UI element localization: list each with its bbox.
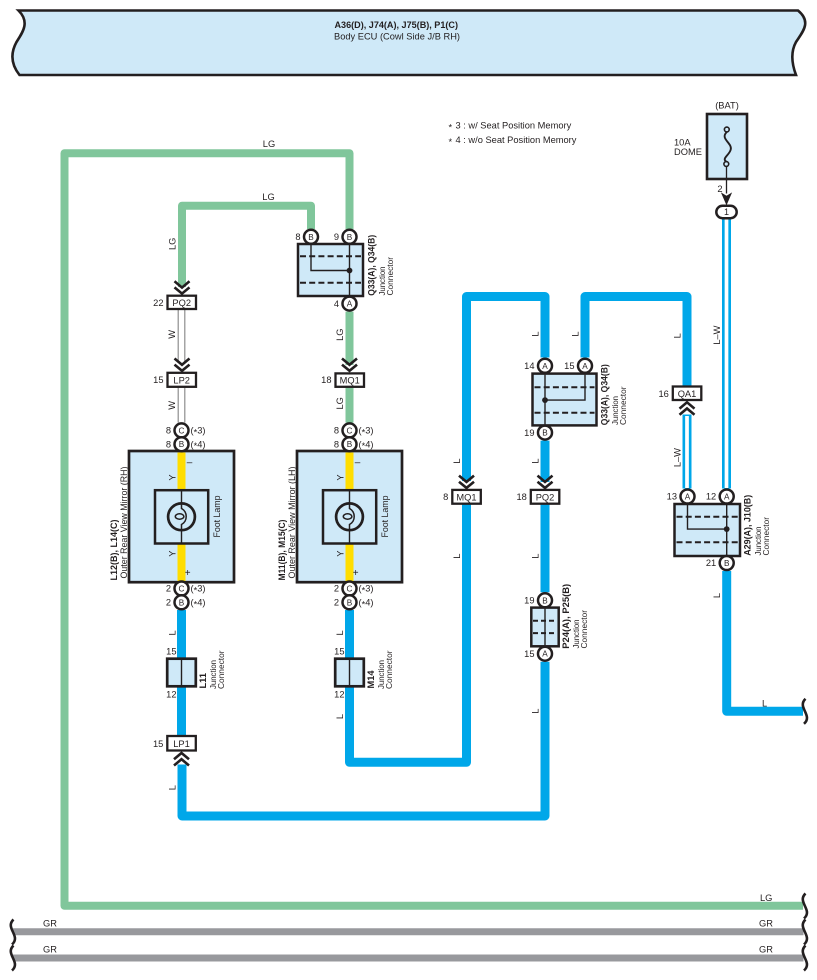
svg-text:GR: GR bbox=[759, 945, 773, 955]
chevron into PQ2 bbox=[175, 281, 190, 293]
svg-text:13: 13 bbox=[667, 492, 677, 502]
svg-text:C: C bbox=[347, 426, 353, 435]
svg-text:Foot Lamp: Foot Lamp bbox=[380, 496, 390, 538]
wire L (below MQ1 down, across, up to M14) bbox=[335, 503, 467, 762]
svg-text:PQ2: PQ2 bbox=[536, 492, 555, 502]
svg-text:L: L bbox=[531, 554, 541, 559]
wire GR bus 1 bbox=[13, 919, 804, 932]
svg-text:12: 12 bbox=[706, 492, 716, 502]
pin 15 A of Q33 lower bbox=[564, 359, 592, 373]
svg-text:B: B bbox=[347, 233, 353, 242]
svg-text:W: W bbox=[167, 401, 177, 410]
svg-text:L: L bbox=[571, 331, 581, 336]
svg-text:+: + bbox=[185, 568, 191, 579]
wire W (LP2 to RH mirror pin 8) bbox=[167, 387, 185, 422]
connector tag 18 PQ2 bbox=[516, 490, 559, 504]
svg-text:B: B bbox=[308, 233, 314, 242]
svg-text:L: L bbox=[452, 554, 462, 559]
pin 8 C of LH mirror bbox=[334, 423, 374, 437]
svg-text:Q33(A), Q34(B): Q33(A), Q34(B) bbox=[367, 235, 377, 296]
svg-text:B: B bbox=[347, 598, 353, 607]
svg-text:–: – bbox=[187, 458, 193, 469]
svg-text:12: 12 bbox=[166, 690, 176, 700]
wire L (pin 21B A29 down and right to break) bbox=[712, 571, 803, 711]
svg-text:LG: LG bbox=[263, 139, 275, 149]
break squiggle GR1 right bbox=[803, 920, 807, 945]
connector tag 18 MQ1 bbox=[321, 373, 364, 386]
pin 19 B of Q33 lower bbox=[524, 426, 552, 440]
pin 8 B of RH mirror bbox=[166, 437, 206, 451]
pin 4 A of Q33 upper bbox=[334, 297, 357, 311]
svg-text:Y: Y bbox=[168, 551, 178, 557]
fuse 10A DOME bbox=[674, 101, 747, 180]
svg-text:2: 2 bbox=[166, 584, 171, 594]
wire L-W (QA1 to pin 13A A29) bbox=[673, 415, 688, 489]
svg-text:Y: Y bbox=[336, 551, 346, 557]
outer rear view mirror RH L12(B), L14(C) bbox=[109, 451, 234, 582]
svg-text:19: 19 bbox=[524, 596, 534, 606]
svg-text:L: L bbox=[531, 709, 541, 714]
svg-text:L: L bbox=[762, 699, 767, 709]
svg-text:Connector: Connector bbox=[216, 650, 226, 689]
svg-text:L: L bbox=[168, 785, 178, 790]
svg-text:A: A bbox=[542, 362, 548, 371]
svg-text:B: B bbox=[542, 429, 548, 438]
junction connector L11 bbox=[166, 647, 226, 700]
wire L (PQ2-2 to pin 19B P24) bbox=[531, 503, 546, 592]
svg-text:MQ1: MQ1 bbox=[456, 492, 476, 502]
svg-text:Outer Rear View Mirror (LH): Outer Rear View Mirror (LH) bbox=[287, 467, 297, 579]
break squiggle blue L right bbox=[803, 699, 807, 724]
svg-text:(*3): (*3) bbox=[359, 584, 374, 596]
svg-text:2: 2 bbox=[717, 184, 722, 194]
pin 2 C of RH mirror bbox=[166, 582, 206, 596]
svg-text:DOME: DOME bbox=[674, 147, 702, 157]
pin 2 B of RH mirror bbox=[166, 595, 206, 609]
svg-text:M14: M14 bbox=[366, 670, 376, 689]
svg-text:21: 21 bbox=[706, 558, 716, 568]
pin 12 A of A29 bbox=[706, 490, 734, 504]
svg-text:12: 12 bbox=[334, 690, 344, 700]
svg-text:(*4): (*4) bbox=[191, 439, 206, 451]
wire LG branch (PQ2 to pin 8B Q33) bbox=[168, 192, 312, 287]
pin 13 A of A29 bbox=[667, 490, 695, 504]
svg-text:15: 15 bbox=[564, 361, 574, 371]
svg-text:15: 15 bbox=[524, 649, 534, 659]
wire LG main (pin 9B Q33 to left edge, down and across bottom) bbox=[65, 139, 804, 906]
wire LG (pin 4A Q33 to MQ1) bbox=[335, 312, 350, 365]
wire L-W (fuse tag 1 to pin 12A A29) bbox=[712, 217, 727, 489]
svg-text:GR: GR bbox=[43, 919, 57, 929]
svg-text:Connector: Connector bbox=[761, 517, 771, 556]
svg-text:QA1: QA1 bbox=[678, 389, 697, 399]
svg-text:LP2: LP2 bbox=[173, 375, 190, 385]
svg-text:18: 18 bbox=[516, 492, 526, 502]
break squiggle GR1 left bbox=[11, 920, 15, 945]
svg-text:(BAT): (BAT) bbox=[715, 101, 739, 111]
svg-text:8: 8 bbox=[443, 492, 448, 502]
svg-text:8: 8 bbox=[334, 439, 339, 449]
wire L (pin 19B Q33B to PQ2-2) bbox=[531, 441, 546, 482]
svg-text:Outer Rear View Mirror (RH): Outer Rear View Mirror (RH) bbox=[119, 467, 129, 579]
wire fuse pin 2 lead bbox=[717, 167, 726, 195]
junction connector A29(A), J10(B) bbox=[675, 495, 771, 556]
svg-text:16: 16 bbox=[658, 389, 668, 399]
svg-text:LG: LG bbox=[335, 397, 345, 409]
foot lamp LH bbox=[323, 490, 390, 543]
svg-text:3 : w/ Seat Position Memory: 3 : w/ Seat Position Memory bbox=[456, 121, 572, 131]
svg-text:L11: L11 bbox=[198, 673, 208, 689]
svg-text:A: A bbox=[724, 493, 730, 502]
svg-text:4: 4 bbox=[334, 299, 339, 309]
pin 9 B of Q33 upper bbox=[334, 230, 357, 244]
svg-text:4 : w/o Seat Position Memory: 4 : w/o Seat Position Memory bbox=[456, 135, 577, 145]
svg-text:22: 22 bbox=[153, 298, 163, 308]
svg-text:LG: LG bbox=[760, 893, 772, 903]
connector tag 22 PQ2 bbox=[153, 296, 196, 309]
svg-text:L: L bbox=[335, 630, 345, 635]
svg-text:A: A bbox=[347, 300, 353, 309]
wire L (LH mirror pin 2 to M14) bbox=[335, 610, 350, 660]
junction connector Q33(A), Q34(B) upper bbox=[298, 235, 395, 296]
chevron into PQ2 lower bbox=[538, 476, 553, 488]
svg-text:LG: LG bbox=[262, 192, 274, 202]
svg-text:2: 2 bbox=[334, 584, 339, 594]
svg-text:(*4): (*4) bbox=[359, 439, 374, 451]
svg-text:GR: GR bbox=[759, 919, 773, 929]
svg-text:B: B bbox=[542, 596, 548, 605]
pin 15 A of P24 bbox=[524, 647, 552, 661]
svg-text:14: 14 bbox=[524, 361, 534, 371]
wire GR bus 2 bbox=[13, 945, 804, 959]
svg-text:Y: Y bbox=[336, 474, 346, 480]
svg-text:15: 15 bbox=[153, 375, 163, 385]
pin 8 B of LH mirror bbox=[334, 437, 374, 451]
wire L (pin 15A P24 down, across, up to LP1) bbox=[168, 662, 546, 816]
pin 21 B of A29 bbox=[706, 556, 734, 570]
pin 14 A of Q33 lower bbox=[524, 359, 552, 373]
svg-text:C: C bbox=[179, 585, 185, 594]
banner Body ECU (Cowl Side J/B RH) bbox=[12, 11, 805, 76]
svg-text:1: 1 bbox=[724, 207, 729, 217]
svg-text:MQ1: MQ1 bbox=[340, 375, 360, 385]
svg-text:8: 8 bbox=[334, 426, 339, 436]
svg-text:15: 15 bbox=[166, 647, 176, 657]
svg-text:C: C bbox=[179, 426, 185, 435]
svg-text:15: 15 bbox=[153, 739, 163, 749]
outer rear view mirror LH M11(B), M15(C) bbox=[277, 451, 402, 582]
break squiggle GR2 left bbox=[11, 946, 15, 971]
junction connector Q33(A), Q34(B) lower bbox=[533, 364, 628, 425]
svg-text:2: 2 bbox=[334, 598, 339, 608]
wire W (PQ2 to LP2) bbox=[167, 309, 185, 363]
svg-text:(*3): (*3) bbox=[191, 584, 206, 596]
chevron into LP2 bbox=[175, 359, 190, 371]
svg-text:8: 8 bbox=[166, 426, 171, 436]
note seat position memory bbox=[449, 121, 577, 148]
svg-text:2: 2 bbox=[166, 598, 171, 608]
svg-text:A: A bbox=[542, 650, 548, 659]
svg-text:Connector: Connector bbox=[579, 610, 589, 649]
svg-text:(*3): (*3) bbox=[191, 426, 206, 438]
svg-text:A: A bbox=[685, 493, 691, 502]
svg-text:*: * bbox=[449, 122, 453, 132]
svg-text:A: A bbox=[582, 362, 588, 371]
svg-text:A29(A), J10(B): A29(A), J10(B) bbox=[743, 495, 753, 556]
pin 8 C of RH mirror bbox=[166, 423, 206, 437]
svg-text:19: 19 bbox=[524, 428, 534, 438]
svg-text:L: L bbox=[452, 458, 462, 463]
svg-text:L: L bbox=[335, 714, 345, 719]
pin 8 B of Q33 upper bbox=[295, 230, 318, 244]
arrow from fuse bbox=[721, 192, 732, 205]
svg-text:–: – bbox=[355, 458, 361, 469]
svg-text:L–W: L–W bbox=[673, 448, 683, 467]
svg-text:B: B bbox=[179, 598, 185, 607]
svg-text:(*4): (*4) bbox=[359, 598, 374, 610]
svg-text:10A: 10A bbox=[674, 137, 691, 147]
svg-text:Body ECU (Cowl Side J/B RH): Body ECU (Cowl Side J/B RH) bbox=[334, 31, 460, 41]
svg-text:(*3): (*3) bbox=[359, 426, 374, 438]
connector tag 8 MQ1 bbox=[443, 490, 481, 504]
svg-text:Connector: Connector bbox=[385, 257, 395, 296]
svg-text:Connector: Connector bbox=[618, 386, 628, 425]
wire L (L11 to LP1) bbox=[177, 686, 186, 736]
wire L loop (MQ1 up over to pin 14A Q33B) bbox=[452, 297, 545, 482]
svg-text:P24(A), P25(B): P24(A), P25(B) bbox=[561, 584, 571, 649]
svg-text:L: L bbox=[168, 630, 178, 635]
svg-text:M11(B), M15(C): M11(B), M15(C) bbox=[277, 520, 287, 581]
svg-text:L–W: L–W bbox=[712, 325, 722, 344]
svg-text:Connector: Connector bbox=[384, 650, 394, 689]
wire LG (MQ1 to LH mirror pin 8) bbox=[335, 388, 350, 423]
svg-text:15: 15 bbox=[334, 647, 344, 657]
connector tag 15 LP1 bbox=[153, 736, 196, 751]
node 1 oval bbox=[716, 206, 736, 218]
svg-text:LG: LG bbox=[168, 238, 178, 250]
svg-text:B: B bbox=[724, 559, 730, 568]
svg-text:(*4): (*4) bbox=[191, 598, 206, 610]
svg-text:18: 18 bbox=[321, 375, 331, 385]
svg-text:C: C bbox=[347, 585, 353, 594]
svg-text:L: L bbox=[531, 331, 541, 336]
svg-text:L: L bbox=[712, 593, 722, 598]
svg-text:Q33(A), Q34(B): Q33(A), Q34(B) bbox=[600, 364, 610, 425]
wire L loop (pin 15A Q33B up over to QA1) bbox=[571, 297, 688, 387]
connector tag 16 QA1 bbox=[658, 387, 701, 401]
svg-text:B: B bbox=[179, 440, 185, 449]
svg-text:9: 9 bbox=[334, 232, 339, 242]
svg-text:W: W bbox=[167, 330, 177, 339]
pin 2 C of LH mirror bbox=[334, 582, 374, 596]
svg-text:B: B bbox=[347, 440, 353, 449]
svg-text:*: * bbox=[449, 137, 453, 147]
break squiggle green LG right bbox=[803, 894, 807, 919]
connector tag 15 LP2 bbox=[153, 373, 196, 387]
pin 2 B of LH mirror bbox=[334, 595, 374, 609]
chevron out of QA1 (up) bbox=[680, 402, 695, 415]
svg-text:L12(B), L14(C): L12(B), L14(C) bbox=[109, 520, 119, 581]
svg-text:8: 8 bbox=[295, 232, 300, 242]
chevron into MQ1 lower bbox=[459, 476, 474, 488]
svg-text:GR: GR bbox=[43, 945, 57, 955]
svg-text:PQ2: PQ2 bbox=[172, 298, 191, 308]
svg-text:8: 8 bbox=[166, 439, 171, 449]
svg-text:L: L bbox=[531, 458, 541, 463]
pin 19 B of P24 bbox=[524, 593, 552, 607]
chevron out of LP1 (up) bbox=[174, 753, 189, 766]
svg-text:LP1: LP1 bbox=[173, 739, 190, 749]
svg-text:A36(D), J74(A), J75(B), P1(C): A36(D), J74(A), J75(B), P1(C) bbox=[335, 20, 459, 31]
foot lamp RH bbox=[155, 490, 222, 543]
svg-text:LG: LG bbox=[335, 328, 345, 340]
svg-text:Y: Y bbox=[168, 474, 178, 480]
chevron into MQ1 bbox=[342, 359, 357, 371]
svg-text:+: + bbox=[353, 568, 359, 579]
break squiggle GR2 right bbox=[803, 946, 807, 971]
wire L (RH mirror pin 2 to L11) bbox=[168, 610, 182, 660]
junction connector P24(A), P25(B) bbox=[531, 584, 589, 649]
svg-text:Foot Lamp: Foot Lamp bbox=[212, 496, 222, 538]
junction connector M14 bbox=[334, 647, 394, 700]
svg-text:L: L bbox=[673, 333, 683, 338]
